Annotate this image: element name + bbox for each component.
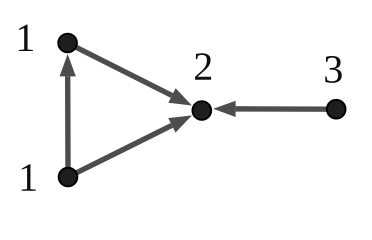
label 2 for node C xyxy=(195,53,211,79)
label 1 for node A xyxy=(19,25,33,51)
wire edge B to C (diagonal up-right) xyxy=(68,115,192,177)
node A (top-left vertex) xyxy=(58,34,77,53)
node C (middle vertex) xyxy=(193,101,212,120)
label 1 for node B xyxy=(22,164,36,190)
wire edge B to A (vertical) xyxy=(60,54,76,177)
label 3 for node D xyxy=(325,56,342,83)
wire edge D to C (horizontal) xyxy=(213,101,336,117)
node D (right vertex) xyxy=(327,100,346,119)
node B (bottom-left vertex) xyxy=(59,168,78,187)
wire edge A to C (diagonal down-right) xyxy=(68,43,192,106)
